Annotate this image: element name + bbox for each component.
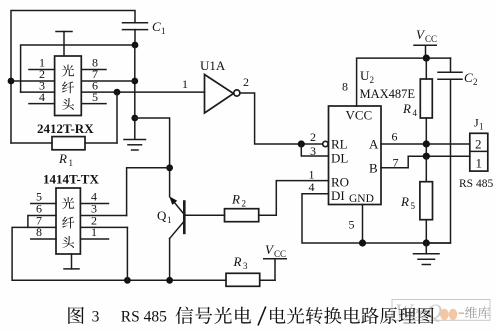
node pin7 junction: [131, 78, 138, 85]
svg-text:RL: RL: [331, 137, 348, 152]
ground (right): [414, 243, 440, 265]
resistor R3: [226, 254, 275, 286]
pin 4 (RX): [29, 90, 55, 104]
svg-text:1: 1: [91, 225, 97, 239]
wire pin8 VCC stub: [357, 58, 451, 106]
svg-text:VCC: VCC: [346, 108, 373, 123]
svg-text:3: 3: [310, 144, 316, 158]
caption 图3 RS485 ...: [68, 307, 433, 326]
svg-text:1414T-TX: 1414T-TX: [43, 172, 99, 187]
wire RO to R2: [259, 181, 329, 216]
wire A (pin 6) row: [381, 143, 470, 145]
node RL/DL junction: [298, 140, 305, 147]
wire emitter branch: [135, 118, 170, 197]
svg-text:1: 1: [476, 156, 483, 171]
wire ground column: [134, 45, 136, 139]
svg-text:1: 1: [161, 26, 166, 36]
pin 7 (RX) wire to ground column: [81, 67, 135, 81]
svg-text:RS 485: RS 485: [459, 178, 493, 190]
watermark box: [392, 300, 490, 321]
wire A-B tie segment: [425, 144, 427, 156]
svg-text:2: 2: [310, 130, 316, 144]
svg-text:5: 5: [92, 90, 98, 104]
power VCC (top right): [414, 27, 437, 58]
svg-text:8: 8: [342, 80, 348, 94]
pin 3 (TX): [80, 202, 126, 216]
svg-text:8: 8: [36, 225, 42, 239]
connector J1: [470, 133, 488, 171]
pin 2 (TX): [80, 214, 127, 228]
TX lens stub: [64, 254, 79, 269]
svg-text:U: U: [360, 68, 370, 83]
svg-text:RS 485: RS 485: [121, 309, 167, 326]
svg-text:CC: CC: [425, 34, 437, 44]
resistor R5: [400, 156, 433, 243]
pin 4 (TX): [80, 190, 108, 204]
svg-text:A: A: [369, 137, 379, 152]
label U2: [360, 68, 374, 85]
node TX pin2 drop junction: [124, 277, 131, 284]
pin 6 (TX): [36, 202, 42, 216]
svg-text:GND: GND: [349, 193, 374, 205]
pin 5 (TX): [31, 190, 56, 204]
svg-text:C: C: [152, 19, 161, 34]
pin 6 (RX) wire to U1A input: [81, 78, 204, 92]
wire net C1-bottom / pin3 frame: [21, 45, 135, 92]
node A/R4 junction: [423, 140, 430, 147]
optical fiber head 1414T-TX box: [56, 188, 80, 254]
svg-text:2: 2: [243, 75, 249, 89]
resistor R4: [402, 58, 432, 144]
capacitor C2: [438, 58, 478, 87]
svg-text:R: R: [231, 192, 240, 207]
wire pin 5 stub: [362, 205, 364, 244]
pin 5 (RX): [81, 90, 106, 104]
wire TX pin6 tie: [28, 216, 56, 228]
svg-text:1: 1: [69, 158, 74, 168]
node VCC junction: [423, 55, 430, 62]
power VCC (bottom): [264, 242, 287, 259]
RL inversion bubble: [323, 141, 328, 146]
node emitter/pin3-tap junction: [166, 164, 173, 171]
svg-text:R: R: [400, 194, 409, 209]
svg-text:2: 2: [473, 77, 478, 87]
watermark WeeQoo: [395, 300, 464, 324]
svg-text:5: 5: [349, 218, 355, 232]
svg-text:3: 3: [92, 309, 100, 326]
label J1: [474, 116, 484, 132]
node ground junction: [423, 239, 430, 246]
pin 7 (TX): [36, 214, 42, 228]
svg-text:R: R: [233, 254, 242, 269]
watermark 维库: [465, 307, 490, 319]
svg-text:R: R: [58, 151, 67, 166]
node emitter-branch junction: [131, 115, 138, 122]
ground (left): [124, 140, 146, 151]
svg-text:4: 4: [413, 108, 418, 118]
pin 1 (RX): [29, 56, 55, 70]
svg-text:2: 2: [370, 75, 375, 85]
svg-text:MAX487E: MAX487E: [360, 87, 416, 101]
pin 8 (TX): [31, 225, 56, 239]
svg-text:CC: CC: [274, 249, 286, 259]
svg-text:B: B: [369, 161, 378, 176]
node R1/pin6 junction: [114, 89, 121, 96]
pin 1 (TX): [80, 225, 108, 239]
optical fiber head 2412T-RX box: [55, 56, 82, 116]
pin 8 (RX): [81, 56, 106, 70]
pin 3 (RX): [21, 78, 55, 92]
svg-text:2: 2: [242, 199, 247, 209]
svg-text:2412T-RX: 2412T-RX: [37, 121, 94, 136]
wire top loop (pin2/R1/C1 net): [11, 11, 135, 144]
node pin2/left-column junction: [8, 78, 15, 85]
transistor Q1: [169, 196, 184, 280]
node B/R5 junction: [423, 153, 430, 160]
svg-text:DI: DI: [331, 188, 345, 203]
op-amp/inverter U1A: [200, 58, 240, 113]
wire C2 bottom to ground rail: [426, 79, 450, 243]
svg-text:6: 6: [392, 130, 398, 144]
svg-text:C: C: [464, 70, 473, 85]
svg-text:1: 1: [167, 215, 172, 225]
svg-text:2: 2: [475, 137, 482, 152]
resistor R2: [184, 192, 258, 222]
svg-text:4: 4: [309, 180, 315, 194]
svg-text:3: 3: [243, 261, 248, 271]
node pin5 junction: [359, 239, 366, 246]
svg-text:1: 1: [479, 122, 484, 132]
svg-text:U1A: U1A: [200, 58, 226, 73]
wire TX pin3 tap: [127, 168, 170, 216]
svg-text:R: R: [402, 101, 411, 116]
svg-text:5: 5: [411, 201, 416, 211]
node C1 junction: [132, 42, 139, 49]
wire TX pin2 drop: [126, 227, 128, 280]
RX lens stub: [56, 32, 72, 57]
svg-text:1: 1: [182, 77, 188, 91]
wire U1A output to RL/DL: [240, 93, 322, 144]
svg-text:4: 4: [39, 90, 45, 104]
wire pin5/DI ground rail: [302, 194, 451, 243]
node collector junction: [166, 277, 173, 284]
label Q1: [157, 208, 172, 225]
svg-text:DL: DL: [331, 151, 348, 166]
wire DL branch: [301, 144, 328, 156]
svg-text:Q: Q: [157, 208, 167, 223]
IC U2 MAX487E: [329, 106, 382, 205]
wire B (pin 7) row with step: [381, 156, 470, 168]
capacitor C1: [123, 19, 166, 45]
resistor R1: [11, 92, 117, 168]
wire bottom loop (TX pins 6/7 to collector/R3): [12, 227, 226, 280]
pin 2 (RX): [11, 67, 55, 81]
